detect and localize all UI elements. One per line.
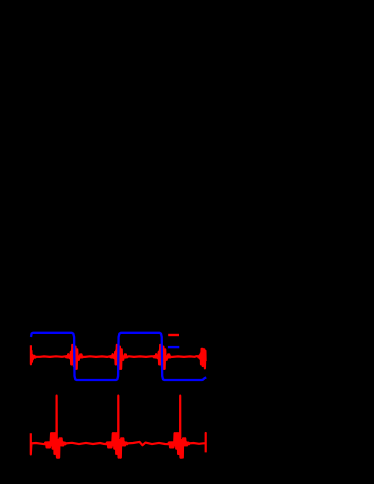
blue excitation square wave (upper plot) <box>31 333 206 380</box>
red response trace with transient bursts (upper plot) <box>31 345 206 369</box>
red spike-train signal (lower plot) <box>31 396 206 458</box>
legend red dash <box>168 334 179 336</box>
legend blue dash <box>168 346 179 348</box>
lower plot spike thin tips <box>56 395 58 400</box>
